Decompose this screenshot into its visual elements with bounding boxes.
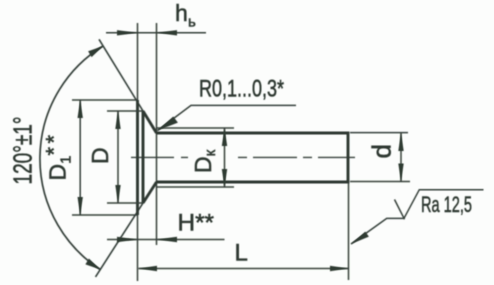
dimension L extension right — [348, 183, 350, 280]
wire center line (dash-dot axis) — [131, 156, 188, 158]
arrow arc bottom — [85, 259, 100, 270]
leader radius callout — [158, 105, 297, 130]
dimension L line — [139, 268, 349, 270]
node Dk phantom line top — [157, 127, 235, 129]
dimension d extension bottom — [350, 181, 410, 183]
dimension Dk line — [224, 128, 226, 187]
svg-text:H**: H** — [178, 210, 215, 237]
arrow radius leader — [158, 117, 178, 131]
arrow L left — [139, 266, 158, 271]
cone top edge — [143, 111, 157, 133]
roughness symbol check mark — [395, 190, 484, 219]
arrowheads — [78, 30, 404, 271]
arrow D bottom — [115, 185, 120, 203]
arrow roughness leader — [351, 232, 369, 244]
arrow d bottom — [398, 164, 403, 182]
wire cone angle extension top — [99, 39, 157, 133]
rivet head outline — [138, 100, 349, 215]
dimension d line — [400, 133, 402, 182]
arrow Dk bottom — [222, 169, 227, 187]
angle arc 120 deg — [40, 46, 103, 270]
arrow d top — [398, 133, 403, 151]
arrow H right — [157, 237, 178, 242]
dimension D extension bottom — [107, 202, 143, 204]
cone bottom edge — [143, 182, 157, 203]
node Dk phantom line bottom — [157, 186, 235, 188]
node extension line face — [137, 23, 139, 281]
dimension d extension top — [350, 132, 408, 134]
dimension h_v line — [106, 32, 206, 34]
svg-text:Ra 12,5: Ra 12,5 — [421, 192, 472, 217]
svg-text:h: h — [175, 0, 188, 26]
arrow h_v left — [117, 30, 138, 35]
head belt line — [142, 111, 145, 203]
shank outline — [157, 133, 349, 182]
svg-text:ь: ь — [188, 14, 196, 31]
dimension H line — [107, 239, 225, 241]
dimension D extension top — [107, 110, 143, 112]
wire cone angle extension bottom — [96, 182, 157, 277]
arrow H left — [117, 237, 138, 242]
node extension line cone base — [156, 23, 158, 245]
svg-text:R0,1...0,3*: R0,1...0,3* — [199, 76, 284, 103]
dimension D1 extension bottom — [72, 214, 138, 216]
roughness symbol leader — [351, 218, 405, 244]
arrow L right — [330, 266, 349, 271]
arrow D1 top — [78, 100, 83, 118]
arrow D top — [115, 111, 120, 129]
svg-text:d: d — [367, 144, 397, 158]
head flat face — [136, 100, 139, 215]
svg-text:L: L — [235, 240, 248, 267]
dimension D1 extension top — [72, 99, 138, 101]
svg-text:D: D — [87, 147, 113, 164]
svg-text:120°±1°: 120°±1° — [8, 117, 38, 185]
arrow h_v right — [157, 30, 178, 35]
arrow Dk top — [222, 128, 227, 146]
dimension D1 line — [79, 100, 81, 215]
arrow D1 bottom — [78, 197, 83, 215]
arrow arc top — [88, 46, 103, 57]
dimension D line — [117, 111, 119, 203]
